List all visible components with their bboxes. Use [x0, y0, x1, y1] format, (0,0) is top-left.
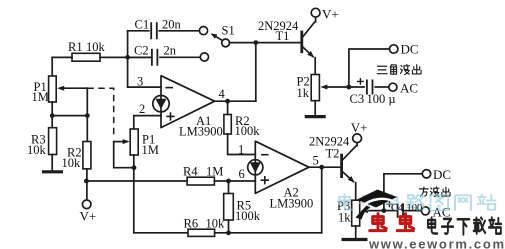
resistor R5: [224, 181, 234, 233]
svg-text:10k: 10k: [27, 143, 47, 157]
wire A2 output: [309, 165, 342, 170]
svg-text:LM3900: LM3900: [270, 197, 314, 211]
node P3 wiper junction: [382, 208, 387, 213]
resistor R2 10k: [83, 116, 91, 181]
capacitor C2: [128, 49, 201, 66]
wire P1 middle bottom column: [133, 155, 135, 233]
wire pin2 row: [134, 116, 161, 129]
A2 plus sign: [261, 176, 269, 184]
wire wiper to DC tap: [349, 49, 390, 87]
wire P1 wiper down: [86, 88, 88, 115]
label P1 1M middle: [142, 133, 159, 157]
svg-text:AC: AC: [400, 80, 418, 95]
svg-text:www.eeworm.com: www.eeworm.com: [368, 236, 505, 249]
wire wiper to DC tap square: [384, 174, 422, 211]
svg-text:2: 2: [139, 102, 145, 116]
node bus-left junction: [84, 179, 89, 184]
label V+ T2: [351, 120, 368, 135]
label square wave out: [420, 187, 450, 197]
label P2 1k: [297, 75, 310, 100]
A1 minus sign: [166, 87, 174, 89]
label pin 6: [239, 167, 245, 181]
wire T1 base: [256, 42, 302, 44]
svg-text:1k: 1k: [338, 210, 351, 224]
ground below P3: [342, 238, 368, 241]
A2 minus sign: [261, 154, 269, 156]
label 2N2924 T1: [258, 19, 299, 43]
potentiometer P2: [311, 75, 349, 116]
node P2 wiper junction: [347, 85, 352, 90]
svg-text:R1: R1: [68, 40, 83, 54]
terminal DC square: [422, 170, 430, 178]
label C1 20n: [135, 18, 182, 32]
svg-text:DC: DC: [433, 167, 451, 182]
label P1 1M left: [32, 80, 49, 104]
label V+ bottom left: [80, 209, 97, 224]
label pin 5: [313, 154, 319, 168]
wire P1 middle wiper-to-bottom: [114, 142, 137, 171]
potentiometer P1 middle: [114, 129, 139, 155]
label pin 1: [238, 142, 244, 156]
switch S1 pole: [222, 39, 256, 47]
svg-text:20n: 20n: [162, 18, 182, 32]
svg-text:10k: 10k: [62, 156, 82, 170]
terminal V+ T2: [353, 134, 362, 143]
label C3 100u: [350, 92, 396, 106]
wire R1 row left to P1 top: [51, 57, 53, 76]
dashed gang link: [87, 88, 113, 137]
svg-text:3: 3: [137, 74, 143, 88]
resistor R1: [52, 53, 151, 61]
label A1: [196, 114, 211, 128]
svg-text:1M: 1M: [206, 165, 223, 179]
label DC triangle: [401, 41, 419, 56]
watermark red chars: [370, 214, 414, 231]
svg-text:1M: 1M: [32, 90, 49, 104]
label R4 1M: [183, 165, 223, 179]
svg-text:S1: S1: [222, 23, 235, 37]
potentiometer P1 left: [49, 76, 88, 116]
svg-text:R6: R6: [184, 217, 199, 231]
label R2 10k left: [62, 145, 82, 170]
switch S1 upper contact: [199, 27, 207, 35]
label LM3900 A1: [179, 125, 223, 139]
label C2 2n: [134, 44, 177, 58]
label triangle wave out: [377, 64, 421, 74]
svg-text:4: 4: [219, 87, 226, 101]
label S1: [222, 23, 235, 37]
svg-text:V+: V+: [80, 209, 97, 224]
A1 current mirror symbol: [153, 96, 169, 112]
resistor R2 100k: [224, 101, 255, 154]
terminal AC triangle: [389, 83, 397, 91]
svg-text:100k: 100k: [235, 209, 261, 223]
label 2N2924 T2: [309, 135, 350, 161]
C4 plus sign: [386, 201, 392, 207]
svg-text:2n: 2n: [164, 44, 177, 58]
wire vertical feedback column: [125, 31, 130, 87]
resistor R3: [49, 116, 57, 171]
label pin 3: [137, 74, 143, 88]
svg-text:C4: C4: [391, 203, 404, 214]
capacitor C4: [384, 203, 422, 218]
svg-text:6: 6: [239, 167, 245, 181]
wire A1 output: [215, 99, 256, 104]
svg-text:T1: T1: [276, 29, 290, 43]
svg-text:T2: T2: [326, 147, 340, 161]
wire to V+ terminal: [86, 181, 88, 200]
terminal AC square: [422, 207, 430, 215]
svg-text:10k: 10k: [206, 217, 226, 231]
capacitor C3: [349, 80, 389, 95]
transistor T1: [302, 17, 316, 74]
label AC square: [433, 204, 451, 219]
svg-text:C1: C1: [135, 18, 150, 32]
terminal DC triangle: [390, 45, 398, 53]
op-amp A2 triangle: [255, 141, 309, 193]
ground below R3: [42, 170, 63, 173]
switch S1 lower contact: [200, 53, 208, 61]
svg-text:5: 5: [313, 154, 319, 168]
watermark black site name: [428, 217, 501, 234]
ground below P2: [305, 115, 326, 118]
label R2 100k: [235, 114, 261, 138]
svg-text:C2: C2: [134, 44, 149, 58]
svg-text:C3: C3: [350, 92, 365, 106]
svg-text:V+: V+: [351, 120, 368, 135]
svg-text:100: 100: [407, 203, 423, 214]
potentiometer P3: [352, 200, 384, 239]
label pin 4: [219, 87, 226, 101]
label AC triangle: [400, 80, 418, 95]
watermark url: [368, 236, 505, 249]
svg-text:1k: 1k: [297, 86, 310, 100]
resistor R6: [134, 229, 322, 236]
svg-text:100k: 100k: [235, 124, 261, 138]
label LM3900 A2: [270, 197, 314, 211]
terminal V+ T1: [311, 8, 320, 17]
svg-text:R4: R4: [183, 165, 198, 179]
C3 plus sign: [357, 78, 364, 85]
label R6 10k: [184, 217, 226, 231]
label A2: [284, 186, 299, 200]
label R5 100k: [235, 199, 261, 223]
svg-text:10k: 10k: [86, 40, 106, 54]
label R3 10k: [27, 133, 47, 157]
A2 current mirror symbol: [248, 160, 263, 175]
label R1 10k: [68, 40, 106, 54]
terminal V+ bottom left: [82, 200, 91, 209]
svg-text:100 µ: 100 µ: [367, 92, 396, 106]
svg-text:1: 1: [238, 142, 244, 156]
capacitor C1: [128, 22, 200, 39]
svg-text:V+: V+: [322, 7, 339, 22]
svg-text:LM3900: LM3900: [179, 125, 223, 139]
label DC square: [433, 167, 451, 182]
A1 plus sign: [166, 112, 174, 120]
wire node row y115.6: [50, 113, 90, 118]
resistor R4: [86, 177, 228, 185]
transistor T2: [342, 143, 358, 200]
watermark logo cap: [356, 190, 398, 220]
op-amp A1 triangle: [161, 76, 215, 128]
label P3 1k: [337, 199, 351, 224]
wire output up to T1 base: [253, 40, 258, 101]
svg-text:DC: DC: [401, 41, 419, 56]
wire pin6 row: [229, 180, 256, 182]
wire feedback up to A2 out: [321, 167, 323, 233]
label C4 100u: [391, 203, 422, 214]
node pin6 junction: [226, 179, 231, 184]
watermark blue site text: [339, 194, 495, 210]
label V+ T1: [322, 7, 339, 22]
svg-text:1M: 1M: [142, 143, 159, 157]
label pin 2: [139, 102, 145, 116]
wire pin3 row: [128, 86, 161, 88]
switch S1 arm: [211, 33, 224, 41]
